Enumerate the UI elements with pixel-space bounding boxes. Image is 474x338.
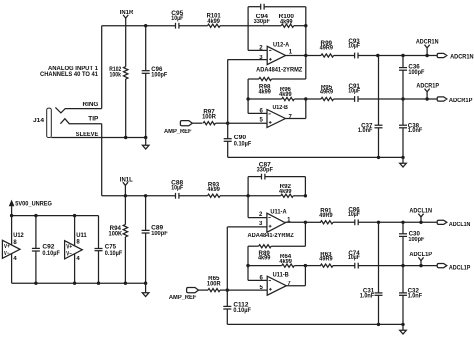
svg-text:ADCL1P: ADCL1P [409,252,432,258]
svg-text:TIP: TIP [88,117,98,123]
svg-text:0.10µF: 0.10µF [233,308,251,314]
svg-text:AMP_REF: AMP_REF [164,129,192,135]
svg-text:RING: RING [83,102,99,108]
svg-text:330pF: 330pF [254,19,271,25]
svg-text:ADCR1N: ADCR1N [450,55,474,61]
svg-text:4k99: 4k99 [207,187,220,193]
svg-text:100k: 100k [110,73,122,79]
svg-text:ADCR1N: ADCR1N [416,39,439,45]
svg-text:49R9: 49R9 [320,90,334,96]
svg-text:1.0nF: 1.0nF [360,293,375,299]
svg-text:4k99: 4k99 [258,90,271,96]
svg-text:CHANNELS 40 TO 41: CHANNELS 40 TO 41 [40,72,99,78]
svg-text:100pF: 100pF [408,70,424,76]
svg-text:V−: V− [4,251,10,257]
svg-text:ADCR1P: ADCR1P [449,98,473,104]
svg-text:1.0nF: 1.0nF [408,293,423,299]
svg-text:U11: U11 [76,233,87,239]
svg-text:5V00_UNREG: 5V00_UNREG [15,201,52,207]
svg-text:10µF: 10µF [348,212,360,218]
svg-text:100R: 100R [207,282,221,288]
svg-text:SLEEVE: SLEEVE [76,132,99,138]
svg-text:1.0nF: 1.0nF [358,128,373,134]
svg-text:U11-B: U11-B [273,272,290,278]
svg-text:V−: V− [66,251,72,257]
svg-text:U12-A: U12-A [273,42,290,48]
svg-text:49R9: 49R9 [320,45,334,51]
svg-text:100R: 100R [202,115,216,121]
svg-text:C90: C90 [234,135,247,141]
svg-text:10µF: 10µF [171,16,183,22]
svg-text:V+: V+ [4,244,10,250]
svg-text:49R9: 49R9 [319,257,333,263]
svg-text:J14: J14 [33,118,45,124]
svg-text:0.10µF: 0.10µF [105,251,123,257]
svg-text:IN1R: IN1R [120,10,134,16]
svg-text:0.10µF: 0.10µF [234,142,252,148]
svg-text:49R9: 49R9 [319,213,333,219]
svg-text:4k99: 4k99 [258,256,271,262]
svg-text:C92: C92 [42,244,55,250]
svg-text:ADCL1N: ADCL1N [409,208,432,214]
svg-text:100pF: 100pF [408,237,424,243]
svg-text:ADCL1P: ADCL1P [449,266,471,272]
svg-text:0.10µF: 0.10µF [42,251,60,257]
svg-text:4k99: 4k99 [279,92,292,98]
svg-text:10µF: 10µF [171,185,183,191]
svg-text:330pF: 330pF [257,167,274,173]
svg-text:1.0nF: 1.0nF [408,128,423,134]
svg-text:U12-B: U12-B [272,105,288,111]
svg-text:10µF: 10µF [348,43,360,49]
svg-text:10µF: 10µF [348,88,360,94]
svg-text:U11-A: U11-A [270,209,287,215]
svg-text:C75: C75 [105,244,117,250]
svg-text:ADCL1N: ADCL1N [449,222,471,228]
svg-text:V+: V+ [66,244,72,250]
svg-text:100pF: 100pF [151,72,167,78]
svg-text:100pF: 100pF [151,231,168,237]
svg-text:IN1L: IN1L [120,177,133,183]
svg-text:4k99: 4k99 [279,259,292,265]
svg-text:10µF: 10µF [348,255,360,261]
svg-text:AMP_REF: AMP_REF [169,295,197,301]
svg-text:4k99: 4k99 [207,19,220,25]
svg-text:100K: 100K [109,232,123,238]
svg-text:ADA4841-2YRMZ: ADA4841-2YRMZ [256,68,303,74]
svg-text:U12: U12 [13,233,24,239]
svg-text:ADA4841-2YRMZ: ADA4841-2YRMZ [248,233,295,239]
svg-text:ADCR1P: ADCR1P [416,83,439,89]
